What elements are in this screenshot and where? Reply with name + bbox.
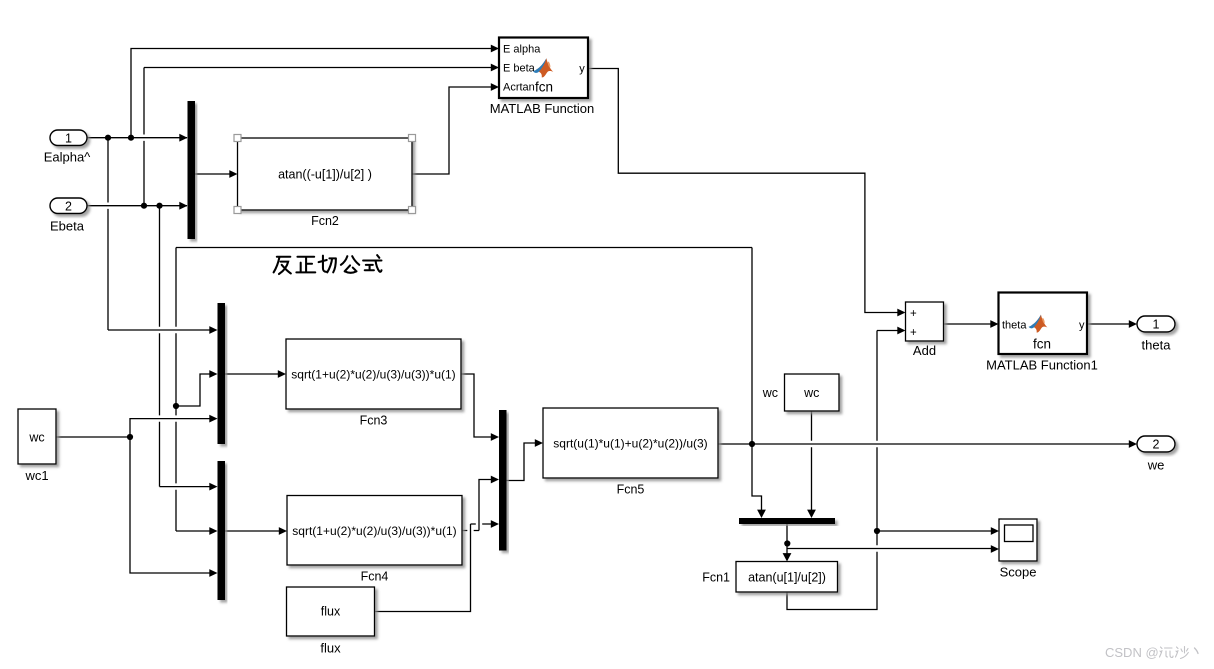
mux Mux (top, inputs Ealpha Ebeta) (188, 101, 196, 239)
svg-text:sqrt(1+u(2)*u(2)/u(3)/u(3))*u(: sqrt(1+u(2)*u(2)/u(3)/u(3))*u(1) (292, 524, 456, 538)
arrowheads down-pointing (757, 510, 816, 562)
svg-text:Fcn3: Fcn3 (360, 414, 388, 428)
wire Add out to MATLAB Function1 (943, 323, 992, 325)
svg-text:MATLAB Function1: MATLAB Function1 (986, 358, 1098, 373)
svg-text:theta: theta (1142, 338, 1172, 353)
svg-text:flux: flux (321, 605, 341, 619)
mux Mux4 (horizontal, feeds Fcn1) (739, 518, 835, 524)
svg-text:sqrt(1+u(2)*u(2)/u(3)/u(3))*u(: sqrt(1+u(2)*u(2)/u(3)/u(3))*u(1) (291, 368, 455, 382)
wire Fcn5 branch down to hbar (752, 444, 762, 511)
block MATLAB Function1 (986, 293, 1098, 373)
mux Mux3 (feeds Fcn5) (499, 410, 507, 551)
svg-text:+: + (910, 308, 917, 320)
svg-text:Acrtan: Acrtan (503, 82, 535, 94)
output port 2 we (1137, 436, 1175, 473)
block Fcn3 (286, 339, 461, 428)
svg-text:wc: wc (762, 386, 778, 400)
wire wc1 output (56, 436, 130, 438)
svg-text:Fcn1: Fcn1 (702, 571, 730, 585)
wire MATLAB Function1 out to theta port (1087, 323, 1131, 325)
block Fcn2 (selected) (238, 138, 413, 228)
wire Fcn4 out to mux5 in2 (462, 480, 493, 531)
block wc1 (constant) (18, 409, 56, 483)
wire wc block down to hbar (811, 411, 813, 511)
svg-text:fcn: fcn (1033, 337, 1051, 352)
svg-text:Scope: Scope (1000, 565, 1037, 580)
wire branch to Scope in2 (788, 548, 994, 550)
wire Fcn5 out to we port (718, 443, 1131, 445)
wire wc1 branch down to mux4 in3 (130, 437, 211, 573)
wire Fcn5 branch up at x752 (751, 248, 753, 445)
svg-text:we: we (1147, 458, 1165, 473)
svg-text:wc1: wc1 (24, 468, 48, 483)
block Scope (999, 519, 1037, 580)
svg-text:E beta: E beta (503, 63, 536, 75)
icon MATLAB logo (MATLAB Function1) (1029, 315, 1048, 333)
svg-text:1: 1 (1153, 318, 1160, 332)
wire Fcn3 out to mux5 in1 (461, 374, 493, 437)
icon MATLAB logo (MATLAB Function) (533, 58, 553, 77)
svg-text:CSDN @: CSDN @ (1105, 645, 1159, 660)
svg-text:Fcn4: Fcn4 (361, 570, 389, 584)
wire MATLAB Function y out to Add in1 (588, 69, 899, 313)
wire mux5 to Fcn5 (507, 443, 538, 481)
arrowheads right-pointing (179, 45, 1137, 577)
svg-text:Fcn2: Fcn2 (311, 214, 339, 228)
annotation 反正切公式 (arctangent formula) (274, 255, 382, 274)
block flux (287, 587, 375, 656)
wire branch to Scope in1 (877, 530, 993, 532)
input port 2 Ebeta (50, 198, 87, 234)
svg-text:+: + (910, 327, 917, 339)
svg-text:atan((-u[1])/u[2] ): atan((-u[1])/u[2] ) (278, 168, 372, 182)
svg-text:y: y (579, 63, 585, 75)
wire Fcn2 output to Acrtan input (412, 87, 493, 174)
wire Fcn1 out up to Add in2 (787, 331, 899, 610)
svg-text:2: 2 (1153, 438, 1160, 452)
mux Mux2 (feeds Fcn4) (218, 461, 226, 600)
svg-text:Ealpha^: Ealpha^ (44, 150, 91, 165)
svg-text:Add: Add (913, 343, 936, 358)
svg-text:MATLAB Function: MATLAB Function (490, 101, 595, 116)
watermark CSDN (1105, 645, 1198, 660)
mux Mux1 (feeds Fcn3) (218, 303, 226, 444)
block Fcn5 (543, 408, 718, 497)
block Fcn4 (287, 496, 462, 584)
svg-text:theta: theta (1002, 320, 1027, 332)
wire feedback top from Fcn5 out (176, 247, 752, 249)
svg-text:flux: flux (320, 641, 341, 656)
wire mux4 to Fcn4 (225, 530, 281, 532)
svg-text:E alpha: E alpha (503, 44, 541, 56)
svg-text:Fcn5: Fcn5 (617, 483, 645, 497)
wire flux out to mux5 in3 (375, 524, 494, 612)
svg-text:Ebeta: Ebeta (50, 219, 85, 234)
selection handles Fcn2 (234, 135, 416, 214)
svg-text:1: 1 (65, 131, 72, 145)
svg-text:fcn: fcn (535, 80, 553, 95)
input port 1 Ealpha (44, 130, 91, 165)
wire port2 branch down to mux4 in1 (160, 206, 212, 487)
wire feedback left vertical (176, 248, 211, 532)
wire wc1 branch up to mux2 in3 (130, 419, 211, 437)
svg-text:atan(u[1]/u[2]): atan(u[1]/u[2]) (748, 571, 826, 585)
wire port2 to mux1 (87, 205, 187, 207)
svg-text:sqrt(u(1)*u(1)+u(2)*u(2))/u(3): sqrt(u(1)*u(1)+u(2)*u(2))/u(3) (553, 437, 707, 451)
svg-text:y: y (1079, 320, 1085, 332)
wire Ebeta branch up to E beta input (144, 68, 493, 206)
block MATLAB Function (490, 38, 595, 117)
wire feedback branch to mux2 in2 (176, 374, 211, 406)
block Add (906, 302, 944, 358)
wire mux1 to Fcn2 (195, 173, 231, 175)
svg-text:wc: wc (28, 431, 44, 445)
output port 1 theta (1137, 316, 1175, 353)
wire port1 branch down to mux2 in1 (108, 138, 211, 330)
wire Ealpha branch up to E alpha input (131, 49, 493, 138)
block wc (constant, middle) (762, 374, 839, 411)
wire mux2 to Fcn3 (225, 373, 280, 375)
wire port1 to mux1 (87, 137, 187, 139)
svg-text:wc: wc (803, 386, 819, 400)
svg-text:2: 2 (65, 199, 72, 213)
block Fcn1 (702, 562, 837, 593)
wire hbar out down to Fcn1 (786, 524, 788, 554)
